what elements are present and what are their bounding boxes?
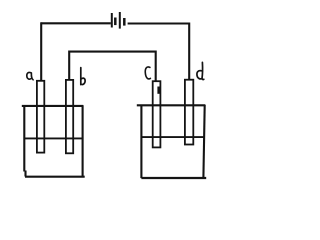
wire link electrode b to electrode c <box>69 52 156 81</box>
beaker 2 rim <box>137 104 206 106</box>
electrode c <box>153 81 161 147</box>
beaker 2 bottom <box>141 177 206 179</box>
label d <box>197 62 204 79</box>
beaker 1 bottom <box>25 176 85 178</box>
electrode c right-edge ink blob <box>157 87 160 94</box>
battery B1 plate long left <box>111 13 113 28</box>
beaker 2 left wall <box>140 105 142 178</box>
beaker 1 liquid level <box>24 137 83 139</box>
beaker 1 right wall <box>82 105 84 177</box>
electrode d <box>185 80 193 145</box>
electrode b <box>66 80 73 153</box>
battery B1 plate long right <box>119 12 121 29</box>
beaker 1 rim <box>22 105 83 107</box>
label b <box>81 68 85 85</box>
wire right riser to electrode d <box>188 23 190 80</box>
wire left riser to electrode a <box>40 22 42 80</box>
beaker 2 liquid level <box>141 136 204 138</box>
label c <box>145 67 150 79</box>
battery B1 plate short right <box>123 18 126 26</box>
wire top-left from node a riser to battery <box>41 22 111 24</box>
wire top-right from battery to node d riser <box>128 22 190 24</box>
beaker 1 left wall <box>24 105 25 176</box>
battery B1 plate short left <box>114 18 117 26</box>
label a <box>27 72 33 79</box>
beaker 2 right wall <box>203 105 204 178</box>
electrode a <box>37 81 44 153</box>
